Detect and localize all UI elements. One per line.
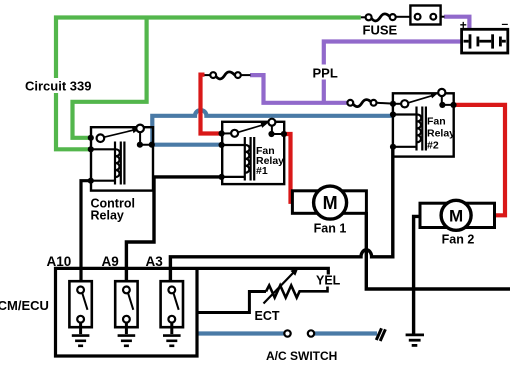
resistor: ECT zigzag [266, 285, 328, 297]
svg-text:A10: A10 [47, 254, 72, 269]
svg-text:M: M [449, 206, 463, 225]
terminal A10 switch inside PCM [69, 281, 91, 334]
wire: Circuit 339 green feed to fuse and control relay [56, 18, 361, 150]
wire: black Fan 1 to ground rail [366, 212, 510, 289]
switch: fan relay 2 contacts [393, 89, 454, 108]
svg-text:PPL: PPL [313, 66, 338, 81]
svg-text:Fan 2: Fan 2 [442, 233, 475, 247]
wire: black control relay to PCM pin A10 [81, 181, 91, 287]
svg-text:+: + [460, 18, 467, 32]
ground: A3 ground [163, 336, 181, 346]
relay: Fan Relay #1 box [222, 122, 284, 184]
switch: fusible link on purple feed to Fan Relay #2 [347, 100, 393, 107]
battery [460, 17, 509, 54]
terminal A3 switch inside PCM [161, 281, 183, 334]
motor: Fan 2 [420, 200, 495, 230]
svg-text:M: M [323, 193, 338, 213]
svg-text:#2: #2 [427, 140, 439, 152]
ground: A10 ground [72, 336, 90, 346]
svg-text:YEL: YEL [316, 274, 341, 288]
wire: black Fan Relay #1 coil to PCM pin A9 [126, 177, 221, 287]
switch: fusible link between red and purple (inline) [205, 72, 251, 79]
svg-text:A/C SWITCH: A/C SWITCH [266, 349, 337, 363]
ground: A9 ground [118, 336, 136, 346]
node: PPL label [310, 65, 339, 81]
coil: fan relay 1 coil [222, 137, 254, 181]
wire: red Fan Relay #1 output to Fan 1 [284, 134, 291, 204]
svg-text:Relay: Relay [427, 128, 455, 140]
junction dots [88, 101, 457, 184]
svg-text:#1: #1 [256, 165, 268, 177]
wire: purple PPL bus [250, 17, 469, 103]
component: PCM/ECU box [56, 267, 329, 356]
wire: blue A/C switch lines [197, 331, 377, 335]
svg-text:Circuit 339: Circuit 339 [25, 79, 91, 94]
relay: Control Relay box [91, 127, 153, 190]
wire break: double slash on A/C wire [376, 328, 385, 341]
svg-text:A9: A9 [102, 254, 119, 269]
switch: control relay contacts [97, 125, 152, 145]
switch: fan relay 1 contacts [222, 119, 284, 137]
relay: Fan Relay #2 box [393, 93, 454, 156]
node: Circuit 339 label [22, 78, 91, 94]
switch: A/C switch contacts [284, 330, 314, 336]
wire: black Fan Relay #2 coil to PCM pin A3 (hop over fan1 ground wire) [170, 147, 392, 287]
svg-text:–: – [502, 17, 509, 31]
svg-text:Relay: Relay [91, 209, 124, 223]
wire: red Fan Relay #2 output to Fan 2 [454, 105, 505, 215]
motor: Fan 1 [292, 186, 366, 219]
svg-text:A3: A3 [146, 254, 164, 269]
svg-text:ECT: ECT [255, 309, 280, 323]
coil: fan relay 2 coil [393, 107, 426, 151]
wire: red feed switch to Fan Relay #1 [201, 75, 222, 134]
ECT variable arrow [264, 268, 299, 304]
component: fuse holder box [410, 6, 444, 25]
svg-text:FUSE: FUSE [363, 23, 398, 38]
component: ECT thermistor wiring [197, 292, 266, 313]
svg-text:PCM/ECU: PCM/ECU [0, 298, 49, 313]
coil: control relay coil [91, 142, 124, 185]
svg-text:Fan: Fan [427, 116, 446, 128]
fuse: fusible link and FUSE label [361, 14, 411, 21]
wire: black Fan 2 to ground [414, 216, 420, 333]
wire: blue control-relay output bus to fan relays (hop over red) [152, 110, 393, 145]
svg-text:Fan 1: Fan 1 [314, 222, 347, 236]
ground: right ground symbol [406, 335, 424, 346]
terminal A9 switch inside PCM [115, 281, 137, 334]
